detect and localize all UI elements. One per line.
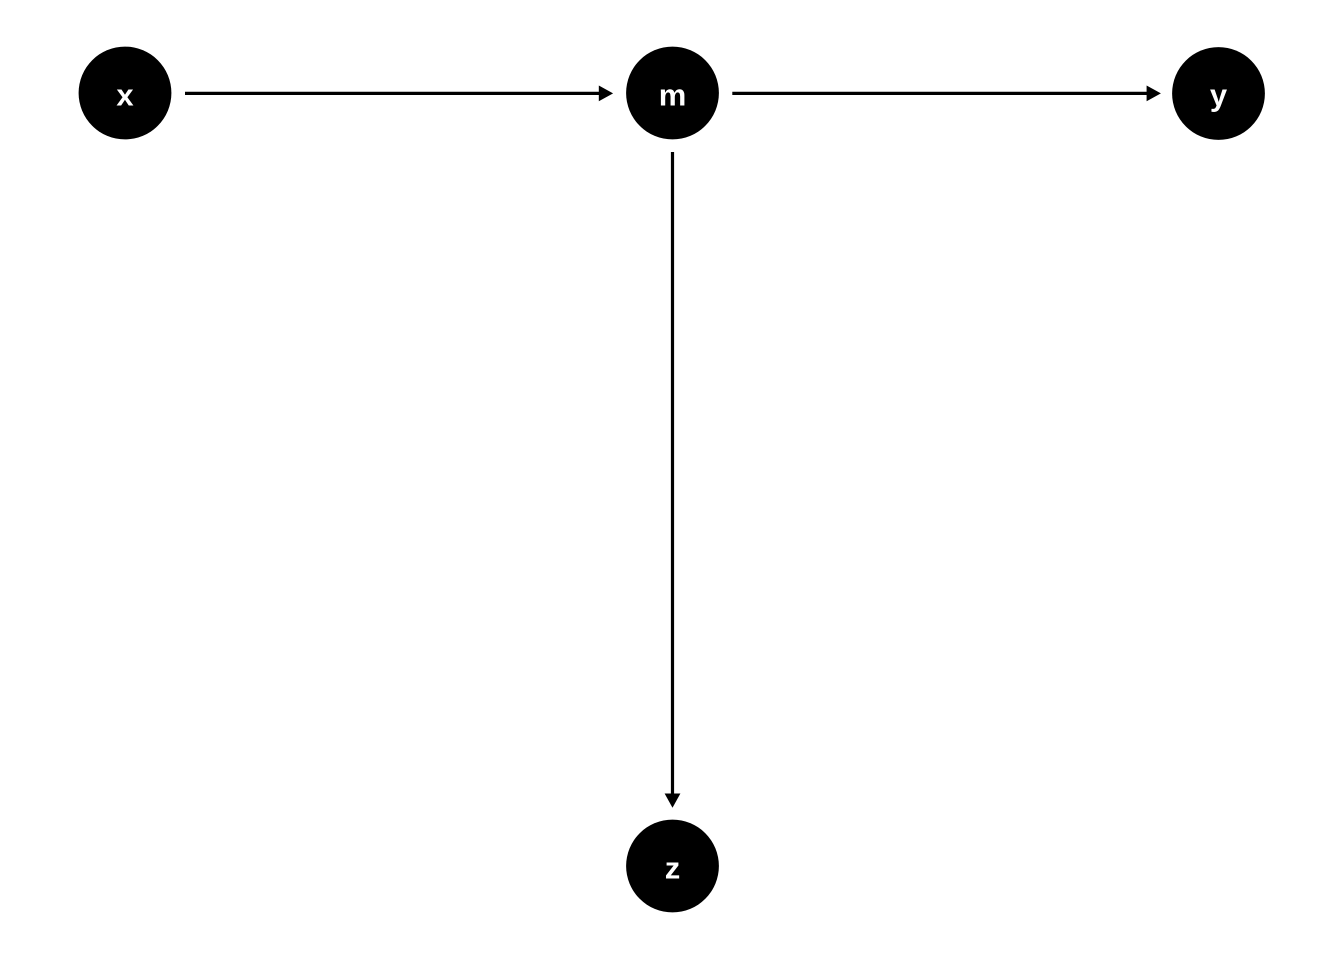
svg-text:x: x bbox=[116, 78, 134, 113]
svg-text:y: y bbox=[1210, 78, 1228, 113]
svg-text:m: m bbox=[659, 78, 687, 113]
svg-text:z: z bbox=[665, 851, 681, 886]
